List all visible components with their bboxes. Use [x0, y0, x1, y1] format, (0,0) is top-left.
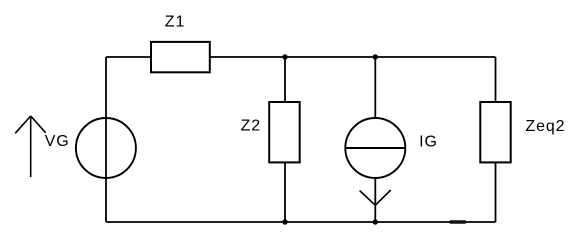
IG arrowhead (points down) — [360, 190, 391, 205]
junction node: bottom bus / Z2 — [282, 219, 287, 224]
wire: left vertical (VG branch) — [105, 57, 107, 222]
wire: right vertical (Zeq2 branch) — [495, 57, 497, 222]
wire: top horizontal bus — [106, 56, 496, 58]
junction node: top bus / IG — [373, 54, 378, 59]
junction node: bottom bus / IG — [373, 219, 378, 224]
svg-text:Z2: Z2 — [241, 118, 261, 135]
wire: bottom horizontal bus — [106, 221, 496, 223]
wire: IG branch vertical — [374, 57, 376, 222]
voltage source VG — [76, 118, 136, 178]
resistor Z2 — [269, 102, 300, 162]
VG reference arrow — [15, 116, 46, 177]
svg-text:Zeq2: Zeq2 — [525, 118, 565, 135]
resistor Zeq2 — [480, 102, 510, 162]
svg-text:Z1: Z1 — [165, 14, 185, 31]
svg-text:IG: IG — [419, 134, 438, 151]
wire: bold overlap segment on bottom bus — [450, 220, 466, 223]
wire: Z2 branch vertical — [284, 57, 286, 222]
current source IG — [345, 118, 405, 178]
svg-text:VG: VG — [45, 133, 70, 150]
resistor Z1 — [151, 42, 210, 72]
junction node: top bus / Z2 — [282, 54, 287, 59]
